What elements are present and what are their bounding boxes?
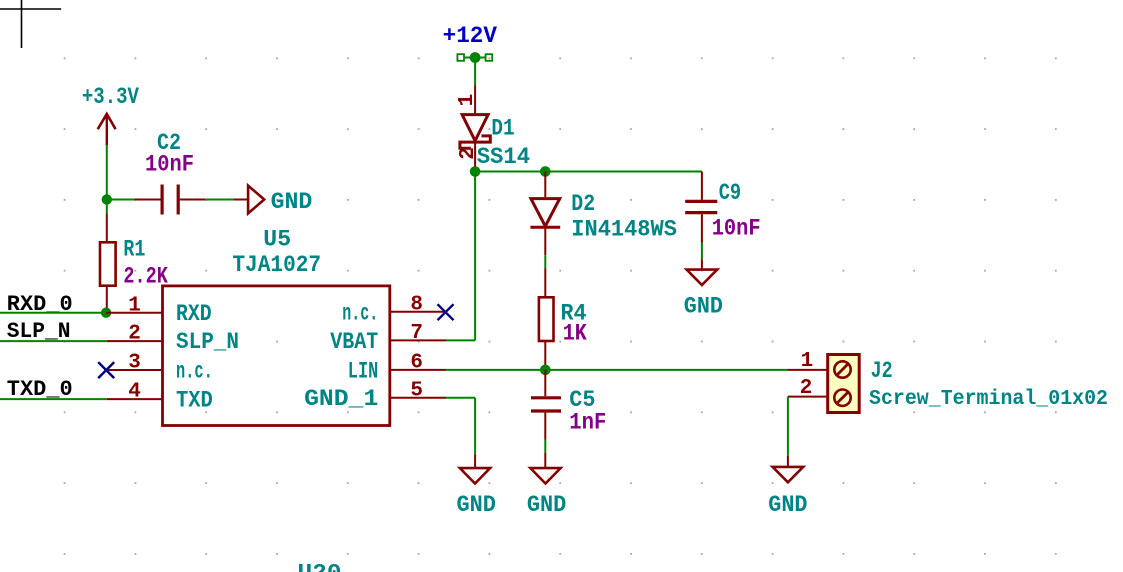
svg-text:D2: D2: [571, 191, 595, 217]
wire node B to C9: [475, 171, 702, 173]
svg-text:D1: D1: [491, 116, 514, 142]
svg-text:+3.3V: +3.3V: [82, 84, 139, 110]
svg-text:8: 8: [410, 293, 423, 316]
svg-text:VBAT: VBAT: [330, 329, 378, 355]
svg-text:J2: J2: [871, 358, 893, 384]
node B junction D1/VBAT: [470, 166, 481, 177]
node D junction LIN: [540, 365, 551, 376]
svg-text:GND: GND: [271, 189, 313, 215]
wire RXD_0: [0, 312, 106, 314]
diode D1: [456, 85, 490, 168]
svg-text:10nF: 10nF: [712, 216, 761, 242]
svg-text:1: 1: [128, 294, 141, 317]
resistor R1: [100, 213, 116, 312]
svg-text:C9: C9: [719, 180, 741, 206]
power symbol +3.3V: [82, 84, 139, 145]
svg-text:1K: 1K: [563, 321, 587, 347]
wire GND_1 pin5: [446, 398, 475, 454]
svg-text:1: 1: [801, 350, 814, 373]
wire J2 pin2 to GND: [787, 397, 789, 456]
U5 pin 4: [107, 381, 213, 414]
wire C9 to GND: [701, 243, 703, 260]
ground GND under pin5: [457, 454, 496, 518]
wire node A to R1: [106, 200, 108, 214]
svg-text:RXD: RXD: [176, 301, 212, 327]
svg-text:2: 2: [800, 377, 813, 400]
ground GND under C5: [527, 453, 566, 519]
U5 pin 2: [107, 323, 239, 355]
svg-text:U20: U20: [298, 561, 342, 572]
svg-text:GND: GND: [684, 293, 723, 319]
svg-text:TXD: TXD: [176, 387, 213, 413]
svg-text:Screw_Terminal_01x02: Screw_Terminal_01x02: [869, 388, 1108, 411]
svg-text:LIN: LIN: [348, 358, 379, 384]
capacitor C2: [135, 185, 206, 215]
no-connect X pin 8: [438, 304, 454, 320]
connector J2: [787, 350, 859, 412]
ground GND right-pointing: [234, 186, 313, 215]
svg-text:n.c.: n.c.: [176, 358, 213, 384]
svg-text:GND: GND: [527, 492, 566, 518]
svg-text:GND: GND: [457, 492, 496, 518]
svg-text:R1: R1: [123, 237, 145, 263]
wire node A to C2: [107, 199, 135, 201]
svg-text:U5: U5: [263, 226, 291, 252]
U5 pin 7: [330, 322, 446, 355]
capacitor C9: [685, 172, 717, 243]
wire node B down to VBAT: [474, 172, 476, 341]
svg-text:GND_1: GND_1: [304, 386, 378, 412]
U5 pin 3: [107, 352, 213, 385]
wire TXD_0: [0, 398, 107, 400]
U5 pin 5: [304, 379, 446, 412]
wire LIN net: [446, 369, 787, 371]
svg-text:1: 1: [456, 94, 479, 107]
wire C2 to GND: [205, 199, 233, 201]
power symbol +12V: [443, 23, 498, 85]
svg-text:GND: GND: [768, 492, 807, 518]
svg-text:5: 5: [410, 379, 423, 402]
svg-text:1nF: 1nF: [569, 410, 606, 436]
wire +3.3V to node A: [106, 145, 108, 200]
svg-text:3: 3: [128, 352, 141, 375]
diode D2: [530, 172, 560, 256]
svg-text:+12V: +12V: [443, 23, 498, 49]
svg-text:4: 4: [128, 381, 141, 404]
U5 pin 8: [342, 293, 446, 326]
U5 pin 6: [348, 352, 446, 385]
no-connect X pin 3: [98, 362, 114, 378]
node C junction D2: [540, 166, 551, 177]
svg-text:TJA1027: TJA1027: [232, 252, 321, 278]
wire VBAT horizontal: [446, 339, 475, 341]
svg-text:10nF: 10nF: [145, 152, 194, 178]
wire C5 to GND: [544, 440, 546, 453]
node RXD junction: [101, 308, 111, 318]
svg-text:SLP_N: SLP_N: [176, 329, 239, 355]
ground GND under J2: [768, 456, 807, 519]
svg-text:2: 2: [128, 323, 141, 346]
svg-text:n.c.: n.c.: [342, 300, 378, 326]
capacitor C5: [531, 370, 561, 440]
ground GND under C9: [684, 259, 723, 319]
resistor R4: [539, 269, 554, 370]
svg-text:IN4148WS: IN4148WS: [571, 217, 677, 243]
svg-text:6: 6: [410, 352, 423, 375]
wire D2 to R4: [544, 255, 546, 268]
U5 pin 1: [106, 294, 212, 327]
wire SLP_N: [0, 340, 107, 342]
IC U5 TJA1027 body: [163, 286, 390, 426]
svg-text:SS14: SS14: [477, 144, 531, 170]
node A junction: [102, 194, 112, 204]
svg-text:7: 7: [410, 322, 423, 345]
